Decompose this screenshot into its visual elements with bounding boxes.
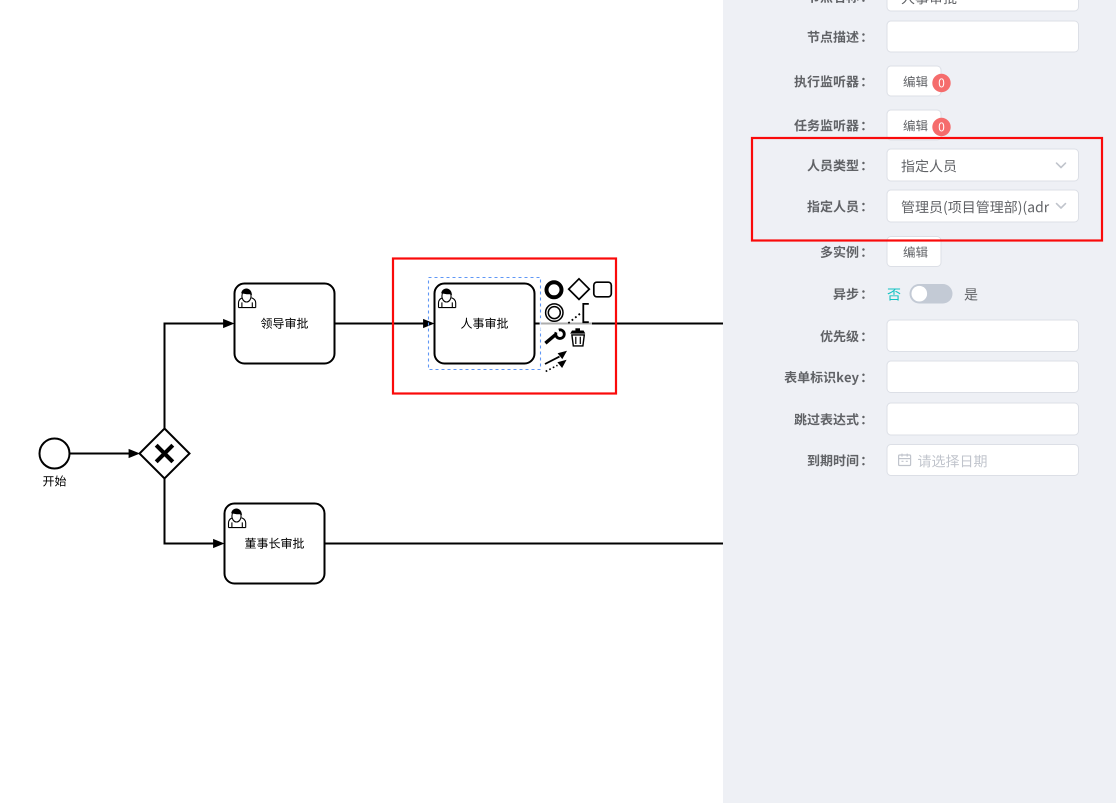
pad icon text annotation (568, 304, 589, 323)
label 表单标识key (784, 371, 858, 385)
selection outline task2 (429, 278, 541, 370)
pad icon wrench (change type) (545, 330, 564, 343)
pad icon append gateway (569, 279, 590, 300)
button 编辑 多实例 (887, 237, 941, 267)
input 节点描述 (887, 21, 1079, 52)
wire task3->right edge (325, 543, 724, 545)
toggle switch (910, 284, 953, 304)
value 管理员(项目管理部)(adr (902, 200, 1050, 215)
pad icon append intermediate event (546, 304, 563, 321)
label 任务监听器 (794, 119, 859, 131)
input 表单标识key (887, 361, 1079, 393)
pad icon append task (594, 282, 612, 297)
label 优先级 (820, 330, 858, 342)
pad icon connect arrows (545, 351, 567, 372)
calendar icon (899, 454, 911, 466)
wire start->gateway (70, 449, 141, 458)
button 编辑 执行监听器 (887, 66, 941, 96)
wire task1->task2 (335, 319, 435, 328)
input 跳过表达式 (887, 403, 1079, 435)
badge 0 (932, 74, 950, 92)
gateway X (140, 429, 190, 479)
start event 开始 (40, 439, 70, 469)
wire gateway->task3 (165, 479, 225, 549)
toggle text 否 (887, 289, 900, 301)
select 指定人员 (887, 190, 1079, 222)
task T1 (235, 284, 335, 364)
red annotation rect on panel (752, 138, 1102, 241)
context pad translucent bg over wire (540, 318, 593, 330)
input 到期时间 date (887, 445, 1079, 476)
pad icon append end event (547, 282, 562, 297)
pad icon trash (delete) (570, 328, 585, 346)
value 指定人员 (901, 159, 956, 172)
label 到期时间 (808, 454, 859, 466)
button 编辑 任务监听器 (887, 110, 941, 140)
task T3 (225, 504, 325, 584)
value 人事审批 (cut) (902, 0, 957, 4)
label 开始 (43, 475, 66, 486)
label 指定人员 (807, 200, 858, 212)
badge 0 (932, 118, 950, 136)
wire task2->right edge (535, 323, 724, 325)
label 人员类型 (807, 159, 858, 171)
task T2 selected (435, 284, 535, 364)
select 人员类型 (887, 149, 1079, 181)
wire gateway->task1 (165, 319, 235, 429)
label 多实例 (821, 246, 858, 258)
red annotation rect on canvas (393, 259, 616, 394)
properties panel background (723, 0, 1116, 803)
input 节点名称 (cut off) (887, 0, 1079, 11)
label 跳过表达式 (794, 413, 858, 425)
placeholder 请选择日期 (918, 455, 986, 468)
toggle text 是 (964, 288, 977, 300)
input 优先级 (887, 320, 1079, 352)
label 异步 (834, 288, 859, 300)
label 节点描述 (808, 31, 859, 43)
label 节点名称 (cut) (808, 0, 859, 3)
label 执行监听器 (794, 75, 858, 87)
